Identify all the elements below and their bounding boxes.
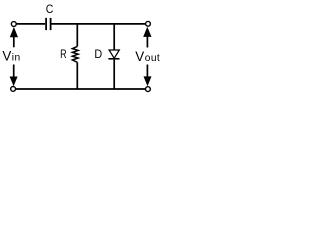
terminal top-left <box>11 22 16 27</box>
Vin arrowhead up <box>10 27 18 37</box>
svg-text:V: V <box>2 49 11 64</box>
Vout arrowhead down <box>144 76 152 86</box>
Vin arrowhead down <box>10 77 18 87</box>
wire diode bottom lead <box>113 60 115 89</box>
svg-text:V: V <box>135 49 144 64</box>
capacitor C plates <box>46 18 51 30</box>
wire resistor top lead <box>76 24 78 47</box>
svg-text:D: D <box>94 49 102 61</box>
Vout arrow up shaft <box>146 37 148 48</box>
diode D triangle <box>109 50 119 58</box>
terminal bottom-left <box>11 87 16 92</box>
resistor R zigzag <box>72 46 78 62</box>
wire diode top lead <box>113 24 115 50</box>
wire bottom <box>16 88 146 90</box>
svg-text:out: out <box>145 53 160 64</box>
terminal bottom-right <box>146 87 151 92</box>
Vout arrowhead up <box>143 27 151 37</box>
Vin arrow up shaft <box>13 37 15 48</box>
svg-text:in: in <box>12 53 21 64</box>
Vin arrow down shaft <box>13 65 15 78</box>
wire top-left (terminal to capacitor) <box>16 23 45 25</box>
diode D cathode bar <box>108 58 119 60</box>
terminal top-right <box>146 21 151 26</box>
Vout arrow down shaft <box>146 65 148 77</box>
wire resistor bottom lead <box>76 62 78 89</box>
wire top-right (capacitor to right terminal) <box>52 23 146 25</box>
svg-text:C: C <box>46 2 54 16</box>
svg-text:R: R <box>60 47 67 61</box>
